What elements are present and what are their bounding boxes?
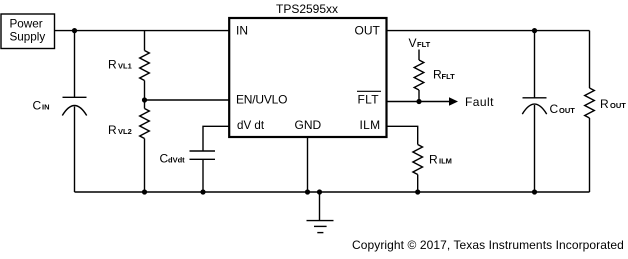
- resistor ROUT: [585, 88, 627, 118]
- svg-text:Fault: Fault: [465, 95, 494, 109]
- svg-text:ILM: ILM: [360, 118, 381, 132]
- svg-text:Power: Power: [10, 18, 43, 31]
- wire: FLT pin to node: [387, 101, 420, 103]
- svg-text:EN/UVLO: EN/UVLO: [236, 93, 287, 107]
- wire: input rail down to RVL1: [144, 31, 146, 51]
- svg-text:dV dt: dV dt: [237, 119, 265, 132]
- svg-text:V: V: [409, 36, 417, 50]
- svg-text:C: C: [33, 98, 42, 112]
- wire: bottom ground rail: [75, 191, 590, 193]
- wire: output rail down to ROUT: [589, 31, 591, 88]
- svg-text:IN: IN: [236, 23, 248, 37]
- wire: RILM to bottom rail: [417, 175, 419, 193]
- wire: output rail down to COUT: [534, 31, 536, 98]
- wire: dVdt pin to CdVdt: [203, 126, 229, 151]
- svg-text:IN: IN: [42, 102, 50, 111]
- svg-text:FLT: FLT: [442, 72, 456, 81]
- svg-text:OUT: OUT: [610, 101, 626, 110]
- pin dVdt label: [237, 119, 265, 132]
- wire: CIN to bottom rail: [74, 107, 76, 193]
- capacitor COUT: [522, 98, 575, 116]
- junction: GND on bottom rail: [305, 189, 310, 194]
- resistor RVL1: [108, 51, 149, 81]
- wire: RVL2 to bottom rail: [144, 139, 146, 193]
- junction: COUT on bottom rail: [532, 189, 537, 194]
- junction: CIN tap on input rail: [72, 28, 77, 33]
- copyright note: [352, 238, 624, 252]
- junction: ground stem on bottom rail: [317, 189, 322, 194]
- net VFLT: [409, 36, 431, 60]
- svg-text:VL2: VL2: [118, 127, 132, 136]
- junction: RVL2 on bottom rail: [142, 189, 147, 194]
- wire: GND pin to bottom rail: [307, 137, 309, 192]
- wire: input rail down to CIN: [74, 31, 76, 98]
- svg-text:GND: GND: [295, 118, 322, 132]
- resistor RFLT: [414, 60, 455, 90]
- svg-text:R: R: [600, 97, 609, 111]
- ground: [307, 192, 334, 233]
- svg-text:Copyright © 2017, Texas Instru: Copyright © 2017, Texas Instruments Inco…: [352, 238, 624, 252]
- wire: EN node down to RVL2: [144, 100, 146, 109]
- wire: RFLT to FLT node: [418, 90, 420, 102]
- wire: COUT to bottom rail: [534, 105, 536, 192]
- svg-text:Supply: Supply: [10, 31, 46, 44]
- wire: OUT pin rail to ROUT corner (top rail right): [387, 30, 590, 32]
- pin FLT label with overline: [357, 91, 381, 106]
- wire: supply to IN pin (top rail left): [55, 30, 229, 32]
- pin GND label: [295, 118, 322, 132]
- pin OUT label: [355, 23, 381, 37]
- junction: COUT tap on output rail: [532, 28, 537, 33]
- capacitor CIN: [33, 97, 87, 115]
- junction: CdVdt on bottom rail: [200, 189, 205, 194]
- power supply source: [1, 14, 55, 49]
- wire: divider node to EN/UVLO pin: [145, 99, 230, 101]
- Fault output arrow: [419, 95, 494, 109]
- wire: RVL1 to EN node: [144, 81, 146, 101]
- resistor RILM: [413, 145, 452, 175]
- svg-text:OUT: OUT: [559, 106, 575, 115]
- op-amp U1 TPS2595xx IC body: [229, 2, 386, 137]
- pin EN/UVLO label: [236, 93, 287, 107]
- junction: FLT node: [416, 99, 421, 104]
- svg-text:ILM: ILM: [439, 157, 452, 166]
- svg-text:dVdt: dVdt: [168, 156, 185, 165]
- wire: ILM pin to RILM: [387, 126, 418, 144]
- svg-text:FLT: FLT: [417, 40, 431, 49]
- junction: EN/UVLO divider node: [142, 97, 147, 102]
- svg-text:TPS2595xx: TPS2595xx: [276, 2, 338, 16]
- svg-text:VL1: VL1: [118, 61, 132, 70]
- svg-text:C: C: [550, 102, 559, 116]
- wire: ROUT to bottom rail: [589, 118, 591, 192]
- pin IN label: [236, 23, 248, 37]
- wire: CdVdt to bottom rail: [202, 159, 204, 192]
- svg-text:R: R: [108, 57, 117, 71]
- pin ILM label: [360, 118, 381, 132]
- capacitor CdVdt: [160, 151, 216, 166]
- svg-text:OUT: OUT: [355, 23, 381, 37]
- svg-text:FLT: FLT: [358, 93, 380, 107]
- junction: RILM on bottom rail: [415, 189, 420, 194]
- resistor RVL2: [108, 109, 149, 139]
- svg-text:R: R: [429, 153, 438, 167]
- svg-text:R: R: [108, 123, 117, 137]
